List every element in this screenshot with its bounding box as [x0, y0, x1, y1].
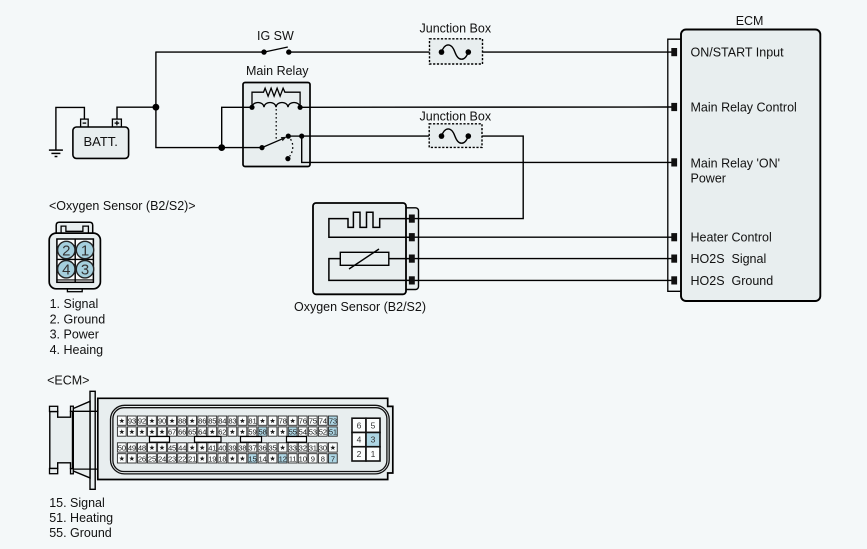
svg-text:IG SW: IG SW	[257, 29, 294, 43]
svg-text:93: 93	[128, 417, 136, 426]
svg-text:33: 33	[289, 443, 297, 452]
svg-text:59: 59	[248, 427, 256, 436]
svg-text:21: 21	[188, 454, 196, 463]
svg-text:26: 26	[138, 454, 146, 463]
svg-text:85: 85	[208, 417, 216, 426]
svg-text:49: 49	[128, 443, 136, 452]
svg-text:41: 41	[208, 443, 216, 452]
svg-text:45: 45	[168, 443, 176, 452]
svg-text:18: 18	[218, 454, 226, 463]
svg-text:55. Ground: 55. Ground	[49, 526, 112, 540]
svg-text:15. Signal: 15. Signal	[49, 496, 105, 510]
svg-text:2: 2	[62, 242, 70, 259]
svg-text:9: 9	[311, 454, 315, 463]
svg-text:40: 40	[218, 443, 226, 452]
svg-text:23: 23	[168, 454, 176, 463]
svg-text:HO2S Ground: HO2S Ground	[691, 274, 774, 288]
svg-text:7: 7	[331, 454, 335, 463]
svg-text:66: 66	[178, 427, 186, 436]
svg-text:Oxygen Sensor (B2/S2): Oxygen Sensor (B2/S2)	[294, 300, 426, 314]
svg-text:52: 52	[319, 427, 327, 436]
svg-text:22: 22	[178, 454, 186, 463]
svg-text:ON/START Input: ON/START Input	[691, 46, 785, 60]
svg-text:1: 1	[81, 242, 89, 259]
svg-text:51. Heating: 51. Heating	[49, 511, 113, 525]
svg-text:73: 73	[329, 417, 337, 426]
svg-text:Main Relay: Main Relay	[246, 64, 309, 78]
svg-text:14: 14	[258, 454, 266, 463]
svg-text:53: 53	[309, 427, 317, 436]
svg-text:4. Heaing: 4. Heaing	[50, 343, 104, 357]
svg-text:12: 12	[279, 454, 287, 463]
svg-text:75: 75	[309, 417, 317, 426]
svg-text:90: 90	[158, 417, 166, 426]
svg-text:37: 37	[248, 443, 256, 452]
svg-text:36: 36	[258, 443, 266, 452]
svg-text:Power: Power	[691, 172, 726, 186]
svg-text:BATT.: BATT.	[83, 134, 117, 149]
svg-text:92: 92	[138, 417, 146, 426]
svg-text:58: 58	[258, 427, 266, 436]
svg-text:ECM: ECM	[736, 14, 764, 28]
svg-text:54: 54	[299, 427, 307, 436]
svg-text:62: 62	[218, 427, 226, 436]
svg-text:2. Ground: 2. Ground	[50, 312, 106, 326]
svg-text:84: 84	[218, 417, 226, 426]
svg-text:31: 31	[309, 443, 317, 452]
svg-text:55: 55	[289, 427, 297, 436]
svg-text:10: 10	[299, 454, 307, 463]
svg-text:Main Relay Control: Main Relay Control	[691, 100, 797, 114]
svg-text:88: 88	[178, 417, 186, 426]
svg-text:24: 24	[158, 454, 166, 463]
svg-text:15: 15	[248, 454, 256, 463]
svg-text:25: 25	[148, 454, 156, 463]
svg-text:1: 1	[371, 449, 376, 459]
svg-text:Junction Box: Junction Box	[420, 22, 492, 36]
svg-text:5: 5	[371, 420, 376, 430]
svg-text:48: 48	[138, 443, 146, 452]
svg-text:81: 81	[248, 417, 256, 426]
svg-text:74: 74	[319, 417, 327, 426]
svg-text:51: 51	[329, 427, 337, 436]
svg-text:38: 38	[238, 443, 246, 452]
svg-text:39: 39	[228, 443, 236, 452]
svg-text:86: 86	[198, 417, 206, 426]
svg-text:35: 35	[269, 443, 277, 452]
svg-text:64: 64	[198, 427, 206, 436]
svg-text:65: 65	[188, 427, 196, 436]
svg-text:3: 3	[81, 262, 89, 279]
svg-text:2: 2	[357, 449, 362, 459]
svg-text:11: 11	[289, 454, 296, 463]
svg-text:3: 3	[371, 435, 376, 445]
svg-text:6: 6	[357, 420, 362, 430]
svg-text:30: 30	[319, 443, 327, 452]
svg-text:<Oxygen Sensor (B2/S2)>: <Oxygen Sensor (B2/S2)>	[49, 199, 196, 213]
svg-text:Main Relay 'ON': Main Relay 'ON'	[691, 157, 781, 171]
svg-text:19: 19	[208, 454, 216, 463]
svg-text:44: 44	[178, 443, 186, 452]
svg-text:3. Power: 3. Power	[50, 328, 99, 342]
svg-text:67: 67	[168, 427, 176, 436]
svg-text:1. Signal: 1. Signal	[50, 297, 99, 311]
svg-text:HO2S Signal: HO2S Signal	[691, 252, 767, 266]
svg-text:32: 32	[299, 443, 307, 452]
svg-text:4: 4	[62, 262, 70, 279]
svg-text:76: 76	[299, 417, 307, 426]
svg-text:83: 83	[228, 417, 236, 426]
svg-text:Heater Control: Heater Control	[691, 230, 772, 244]
svg-text:4: 4	[357, 435, 362, 445]
svg-text:8: 8	[321, 454, 325, 463]
svg-text:Junction Box: Junction Box	[420, 109, 492, 123]
svg-text:78: 78	[279, 417, 287, 426]
svg-text:50: 50	[118, 443, 126, 452]
svg-text:<ECM>: <ECM>	[47, 373, 89, 387]
